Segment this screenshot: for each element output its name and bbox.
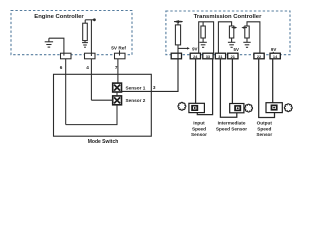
wire B2 to input sensor top — [195, 59, 197, 104]
output speed sensor tone wheel — [284, 104, 292, 112]
connector pin 6 — [61, 53, 72, 59]
svg-text:5V: 5V — [234, 47, 239, 52]
svg-text:4: 4 — [86, 65, 89, 70]
svg-text:Output: Output — [257, 120, 273, 125]
wire pin 4 down — [90, 59, 92, 100]
connector B2 pin 24 — [190, 53, 200, 59]
wire into pin 7 — [119, 53, 121, 55]
svg-text:Speed: Speed — [257, 126, 271, 131]
svg-text:Sensor: Sensor — [191, 132, 207, 137]
svg-text:Intermediate: Intermediate — [218, 120, 246, 125]
Mode Switch box — [54, 74, 152, 136]
connector B4 pin 31 — [215, 53, 225, 59]
Engine Controller dashed box — [11, 11, 132, 55]
cell 3 rail — [247, 22, 260, 54]
double arrow bar with node — [174, 21, 183, 23]
wire S2 bottom loop to pin 6 — [66, 105, 117, 125]
ground under RT2 — [199, 38, 206, 47]
connector B3 pin 33 — [203, 53, 213, 59]
wire into pin 6 — [63, 53, 65, 55]
wire S1-S2 stem — [116, 92, 118, 96]
svg-text:Speed: Speed — [192, 126, 206, 131]
connector B7 pin 14 — [270, 53, 280, 59]
wire pin 6 down — [65, 59, 67, 125]
wire pin 7 down — [117, 59, 119, 84]
wire B6 loop to output sensor bottom — [259, 59, 275, 118]
resistor RT1 — [177, 22, 179, 25]
svg-text:Sensor: Sensor — [256, 132, 272, 137]
wire B4 loop to intermediate sensor bottom — [220, 59, 236, 118]
Transmission Controller dashed box — [166, 11, 290, 55]
wire ground G1 to pin 6 — [49, 38, 64, 55]
svg-text:Speed Sensor: Speed Sensor — [216, 126, 247, 131]
svg-text:6: 6 — [60, 65, 63, 70]
svg-text:Sensor 1: Sensor 1 — [126, 85, 146, 90]
resistor RT4 — [245, 26, 249, 38]
resistor R1 — [84, 20, 86, 23]
cell 2 rail — [218, 22, 231, 54]
svg-text:5V Ref: 5V Ref — [111, 45, 126, 50]
wire through pin B1 — [177, 53, 179, 59]
connector B6 pin 22 — [254, 53, 264, 59]
input speed sensor body — [189, 103, 205, 112]
ground under RT4 — [243, 38, 250, 47]
wire into pin 4 — [90, 53, 92, 56]
svg-text:9V: 9V — [271, 47, 276, 52]
connector B1 pin 3 — [171, 53, 181, 59]
intermediate speed sensor tone wheel — [245, 104, 253, 112]
arrow left from RT4 stub — [244, 27, 247, 29]
connector pin 7 — [115, 53, 126, 59]
svg-text:Sensor 2: Sensor 2 — [126, 98, 146, 103]
9V arrow branch — [178, 47, 187, 49]
svg-text:3: 3 — [153, 85, 156, 90]
node dot — [93, 18, 96, 21]
resistor RT2 — [202, 22, 204, 26]
arrow right from RT3 stub — [232, 27, 235, 29]
svg-text:9V: 9V — [192, 46, 197, 51]
output speed sensor body — [266, 103, 282, 113]
wire stub pin 14 — [272, 52, 274, 54]
sensor switch S2 — [113, 96, 122, 105]
input speed sensor tone wheel — [178, 102, 186, 110]
wire B5 to intermediate sensor top — [231, 59, 233, 104]
wire B3 loop to input sensor bottom — [197, 59, 212, 115]
svg-text:Mode Switch: Mode Switch — [88, 139, 119, 145]
connector pin 4 — [85, 53, 96, 59]
wire resistor R1 top to pin 4 — [85, 19, 94, 21]
wire RT1 bottom to B1 — [177, 45, 179, 54]
ground under RT3 — [228, 38, 235, 47]
connector B5 pin 21 — [228, 53, 238, 59]
wire 5V Ref stub — [119, 50, 121, 55]
ground G2 — [82, 41, 88, 48]
ground G1 — [45, 38, 53, 47]
intermediate speed sensor body — [230, 104, 244, 113]
sensor switch S1 — [113, 83, 122, 92]
wire pin4 to S2 — [91, 99, 113, 101]
svg-text:Transmission Controller: Transmission Controller — [194, 14, 262, 20]
wire S1 to transmission pin (net 3) — [121, 59, 178, 92]
resistor RT3 — [229, 26, 233, 38]
svg-text:Input: Input — [193, 120, 205, 125]
cell 1 rail — [199, 22, 214, 54]
wire B7 to output sensor top — [272, 59, 274, 103]
svg-text:Engine Controller: Engine Controller — [34, 14, 84, 20]
